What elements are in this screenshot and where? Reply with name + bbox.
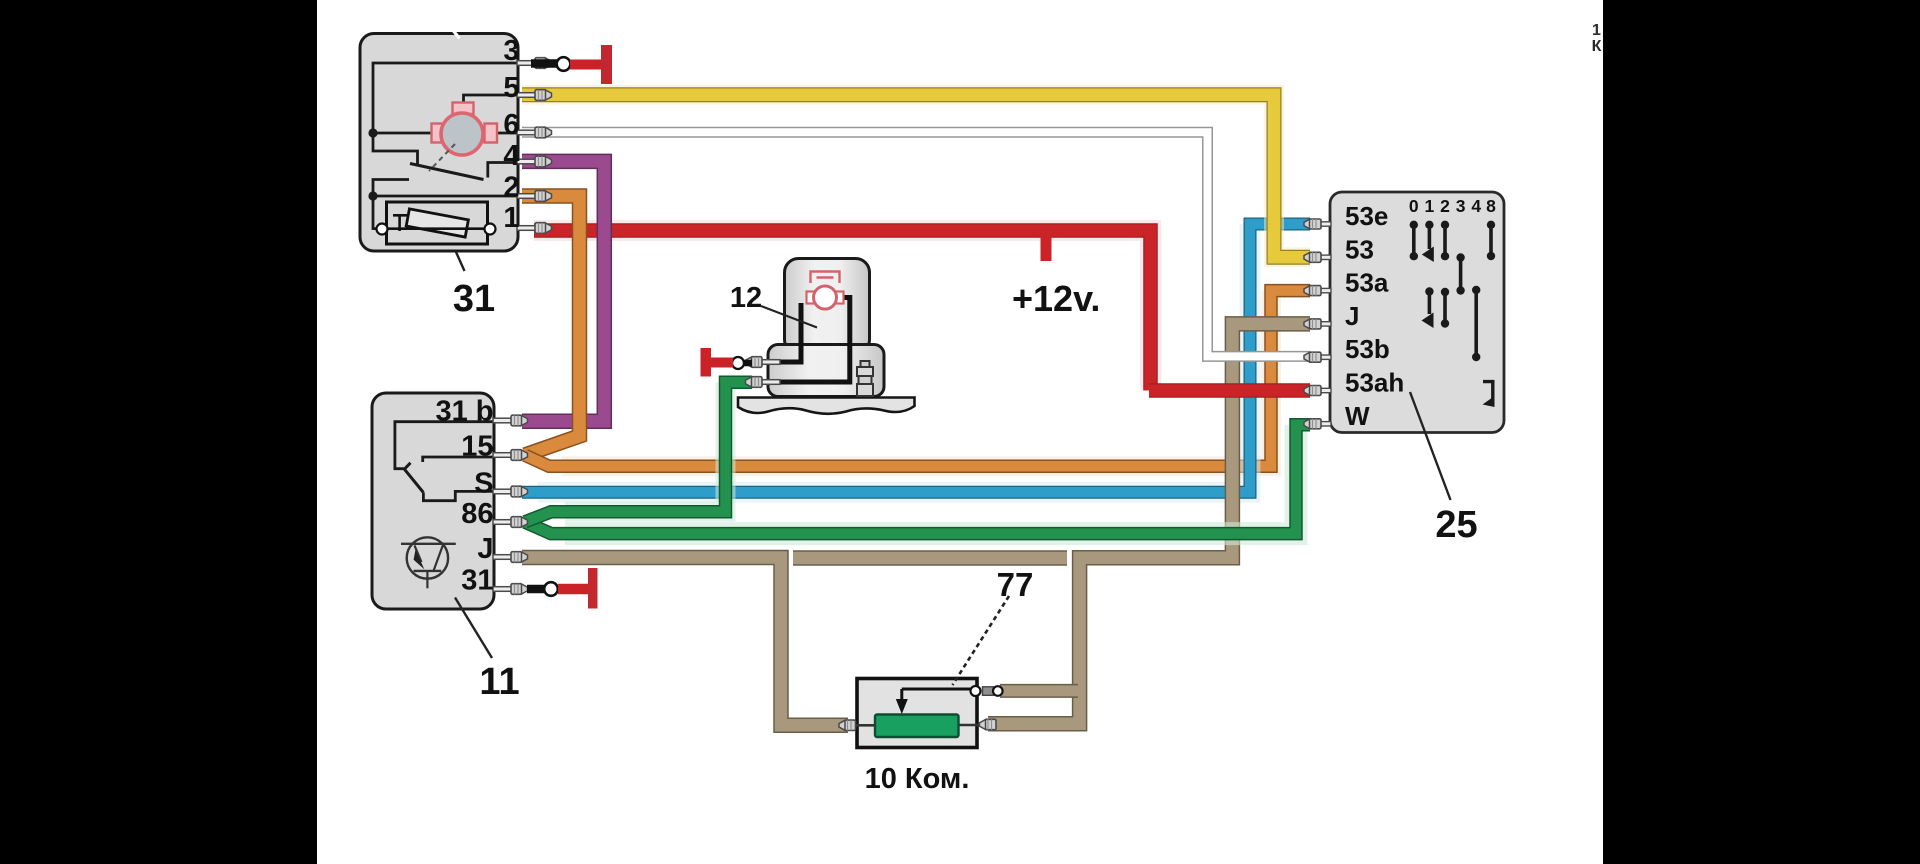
- pump internal wiring: [772, 298, 850, 383]
- svg-text:11: 11: [479, 661, 519, 703]
- svg-text:J: J: [477, 533, 493, 565]
- svg-text:J: J: [1345, 301, 1359, 331]
- wiper arrow of 77: [896, 689, 972, 714]
- pump terminal upper: [746, 357, 781, 368]
- pin W of 25: [1304, 419, 1331, 429]
- relay 25 box: [1330, 192, 1504, 433]
- pin S of 11: [493, 486, 528, 497]
- pin 53 of 25: [1304, 252, 1331, 262]
- node +12V tap stub: [1041, 235, 1052, 261]
- resistor element of 77: [853, 715, 980, 738]
- pin 4 of 31: [517, 156, 552, 167]
- wiper motor unit 31 box: [360, 29, 518, 252]
- cropped caption fragment at right edge: [1592, 22, 1602, 55]
- label +12v: [1012, 278, 1100, 319]
- pin J of 11: [493, 552, 528, 563]
- label 10 Kom: [865, 763, 970, 795]
- svg-text:15: 15: [461, 431, 493, 463]
- svg-text:10 Ком.: 10 Ком.: [865, 763, 970, 795]
- motor symbol inside 31: [429, 103, 497, 172]
- pin 53e of 25: [1304, 219, 1331, 229]
- wire brown J25 to resistor right: [988, 324, 1310, 724]
- svg-text:53: 53: [1345, 234, 1374, 264]
- pin J of 25: [1304, 319, 1331, 329]
- wire brown resistor wiper branch: [1000, 684, 1078, 698]
- wire white pin6 to 53b: [522, 132, 1310, 356]
- svg-text:4: 4: [1471, 196, 1481, 216]
- label 77 with dashed pointer: [953, 566, 1034, 685]
- svg-text:5: 5: [503, 72, 519, 104]
- left black bar: [0, 0, 317, 864]
- wire red +12V feed from motor pin 1: [534, 231, 1151, 391]
- internal wiring of relay 11: [395, 422, 494, 501]
- pin 53ah of 25: [1304, 386, 1331, 396]
- wire purple pin4 to 31b: [522, 161, 604, 421]
- svg-text:31: 31: [453, 278, 495, 320]
- ground at pin 3: [531, 45, 612, 84]
- svg-text:53ah: 53ah: [1345, 368, 1404, 398]
- ground at pin 31 of 11: [527, 568, 598, 609]
- svg-text:31 b: 31 b: [435, 396, 493, 428]
- potentiometer 77 box: [857, 679, 977, 748]
- wire green 86 to W: [525, 425, 1310, 534]
- internal wiring of unit 31: [368, 63, 522, 229]
- pin 53b of 25: [1304, 352, 1331, 362]
- wiper icon inside 11: [401, 537, 456, 588]
- pin 3 of 31: [517, 58, 552, 69]
- svg-text:53a: 53a: [1345, 268, 1389, 298]
- pin 53a of 25: [1304, 286, 1331, 296]
- pin 5 of 31: [517, 90, 552, 101]
- pin labels of 31: [503, 35, 519, 234]
- wire orange 15 to 53a: [525, 291, 1310, 467]
- wire brown J11 to resistor left: [522, 558, 848, 726]
- svg-text:1: 1: [1592, 22, 1601, 39]
- label 31 with pointer: [453, 252, 495, 320]
- pin 15 of 11: [493, 450, 528, 461]
- switch position chart symbols: [1410, 221, 1496, 407]
- svg-text:2: 2: [1440, 196, 1450, 216]
- svg-text:W: W: [1345, 401, 1370, 431]
- wire green 86 to washer pump: [525, 382, 752, 522]
- svg-text:3: 3: [1456, 196, 1466, 216]
- svg-text:4: 4: [503, 140, 519, 172]
- pot terminal right lower: [977, 719, 996, 729]
- svg-text:8: 8: [1486, 196, 1496, 216]
- svg-text:К: К: [1592, 38, 1602, 55]
- pin labels of 11: [435, 396, 493, 597]
- pin 31b of 11: [493, 415, 528, 426]
- washer pump 12: [738, 259, 915, 414]
- svg-text:+12v.: +12v.: [1012, 278, 1100, 319]
- svg-text:S: S: [474, 468, 493, 500]
- pot terminal right upper junction: [971, 686, 1003, 696]
- label 25 with pointer: [1410, 392, 1478, 546]
- pump motor symbol: [807, 272, 844, 310]
- pump terminal lower: [746, 377, 781, 388]
- pin 2 of 31: [517, 191, 552, 202]
- wire blue S to 53e: [522, 224, 1310, 492]
- wire brown dangling segment: [793, 550, 1067, 566]
- pin 86 of 11: [493, 517, 528, 528]
- svg-text:1: 1: [1425, 196, 1435, 216]
- wire orange pin2 to 15: [522, 196, 580, 455]
- svg-text:12: 12: [730, 282, 762, 314]
- label 11 with pointer: [455, 598, 520, 704]
- ground at pump: [701, 348, 753, 377]
- thermal fuse element inside 31: [377, 202, 496, 244]
- svg-text:0: 0: [1409, 196, 1419, 216]
- pin labels of 25: [1345, 201, 1404, 431]
- label 12 with pointer: [730, 282, 817, 328]
- svg-text:6: 6: [503, 109, 519, 141]
- intermittent relay 11 box: [372, 393, 494, 609]
- svg-text:2: 2: [503, 172, 519, 204]
- svg-text:77: 77: [997, 566, 1034, 603]
- svg-text:3: 3: [503, 35, 519, 67]
- pin 31 of 11: [493, 584, 528, 595]
- svg-text:1: 1: [503, 202, 519, 234]
- svg-text:86: 86: [461, 498, 493, 530]
- svg-text:31: 31: [461, 565, 493, 597]
- svg-text:53e: 53e: [1345, 201, 1388, 231]
- right black bar: [1603, 0, 1920, 864]
- pin 1 of 31: [517, 223, 552, 234]
- svg-text:25: 25: [1435, 504, 1477, 546]
- pot terminal left: [839, 720, 875, 730]
- wire yellow pin5 to 53: [522, 95, 1310, 257]
- wire red overlay to 53ah: [1149, 383, 1310, 398]
- svg-text:53b: 53b: [1345, 334, 1390, 364]
- switch position chart digits: [1409, 196, 1496, 216]
- pin 6 of 31: [517, 127, 552, 138]
